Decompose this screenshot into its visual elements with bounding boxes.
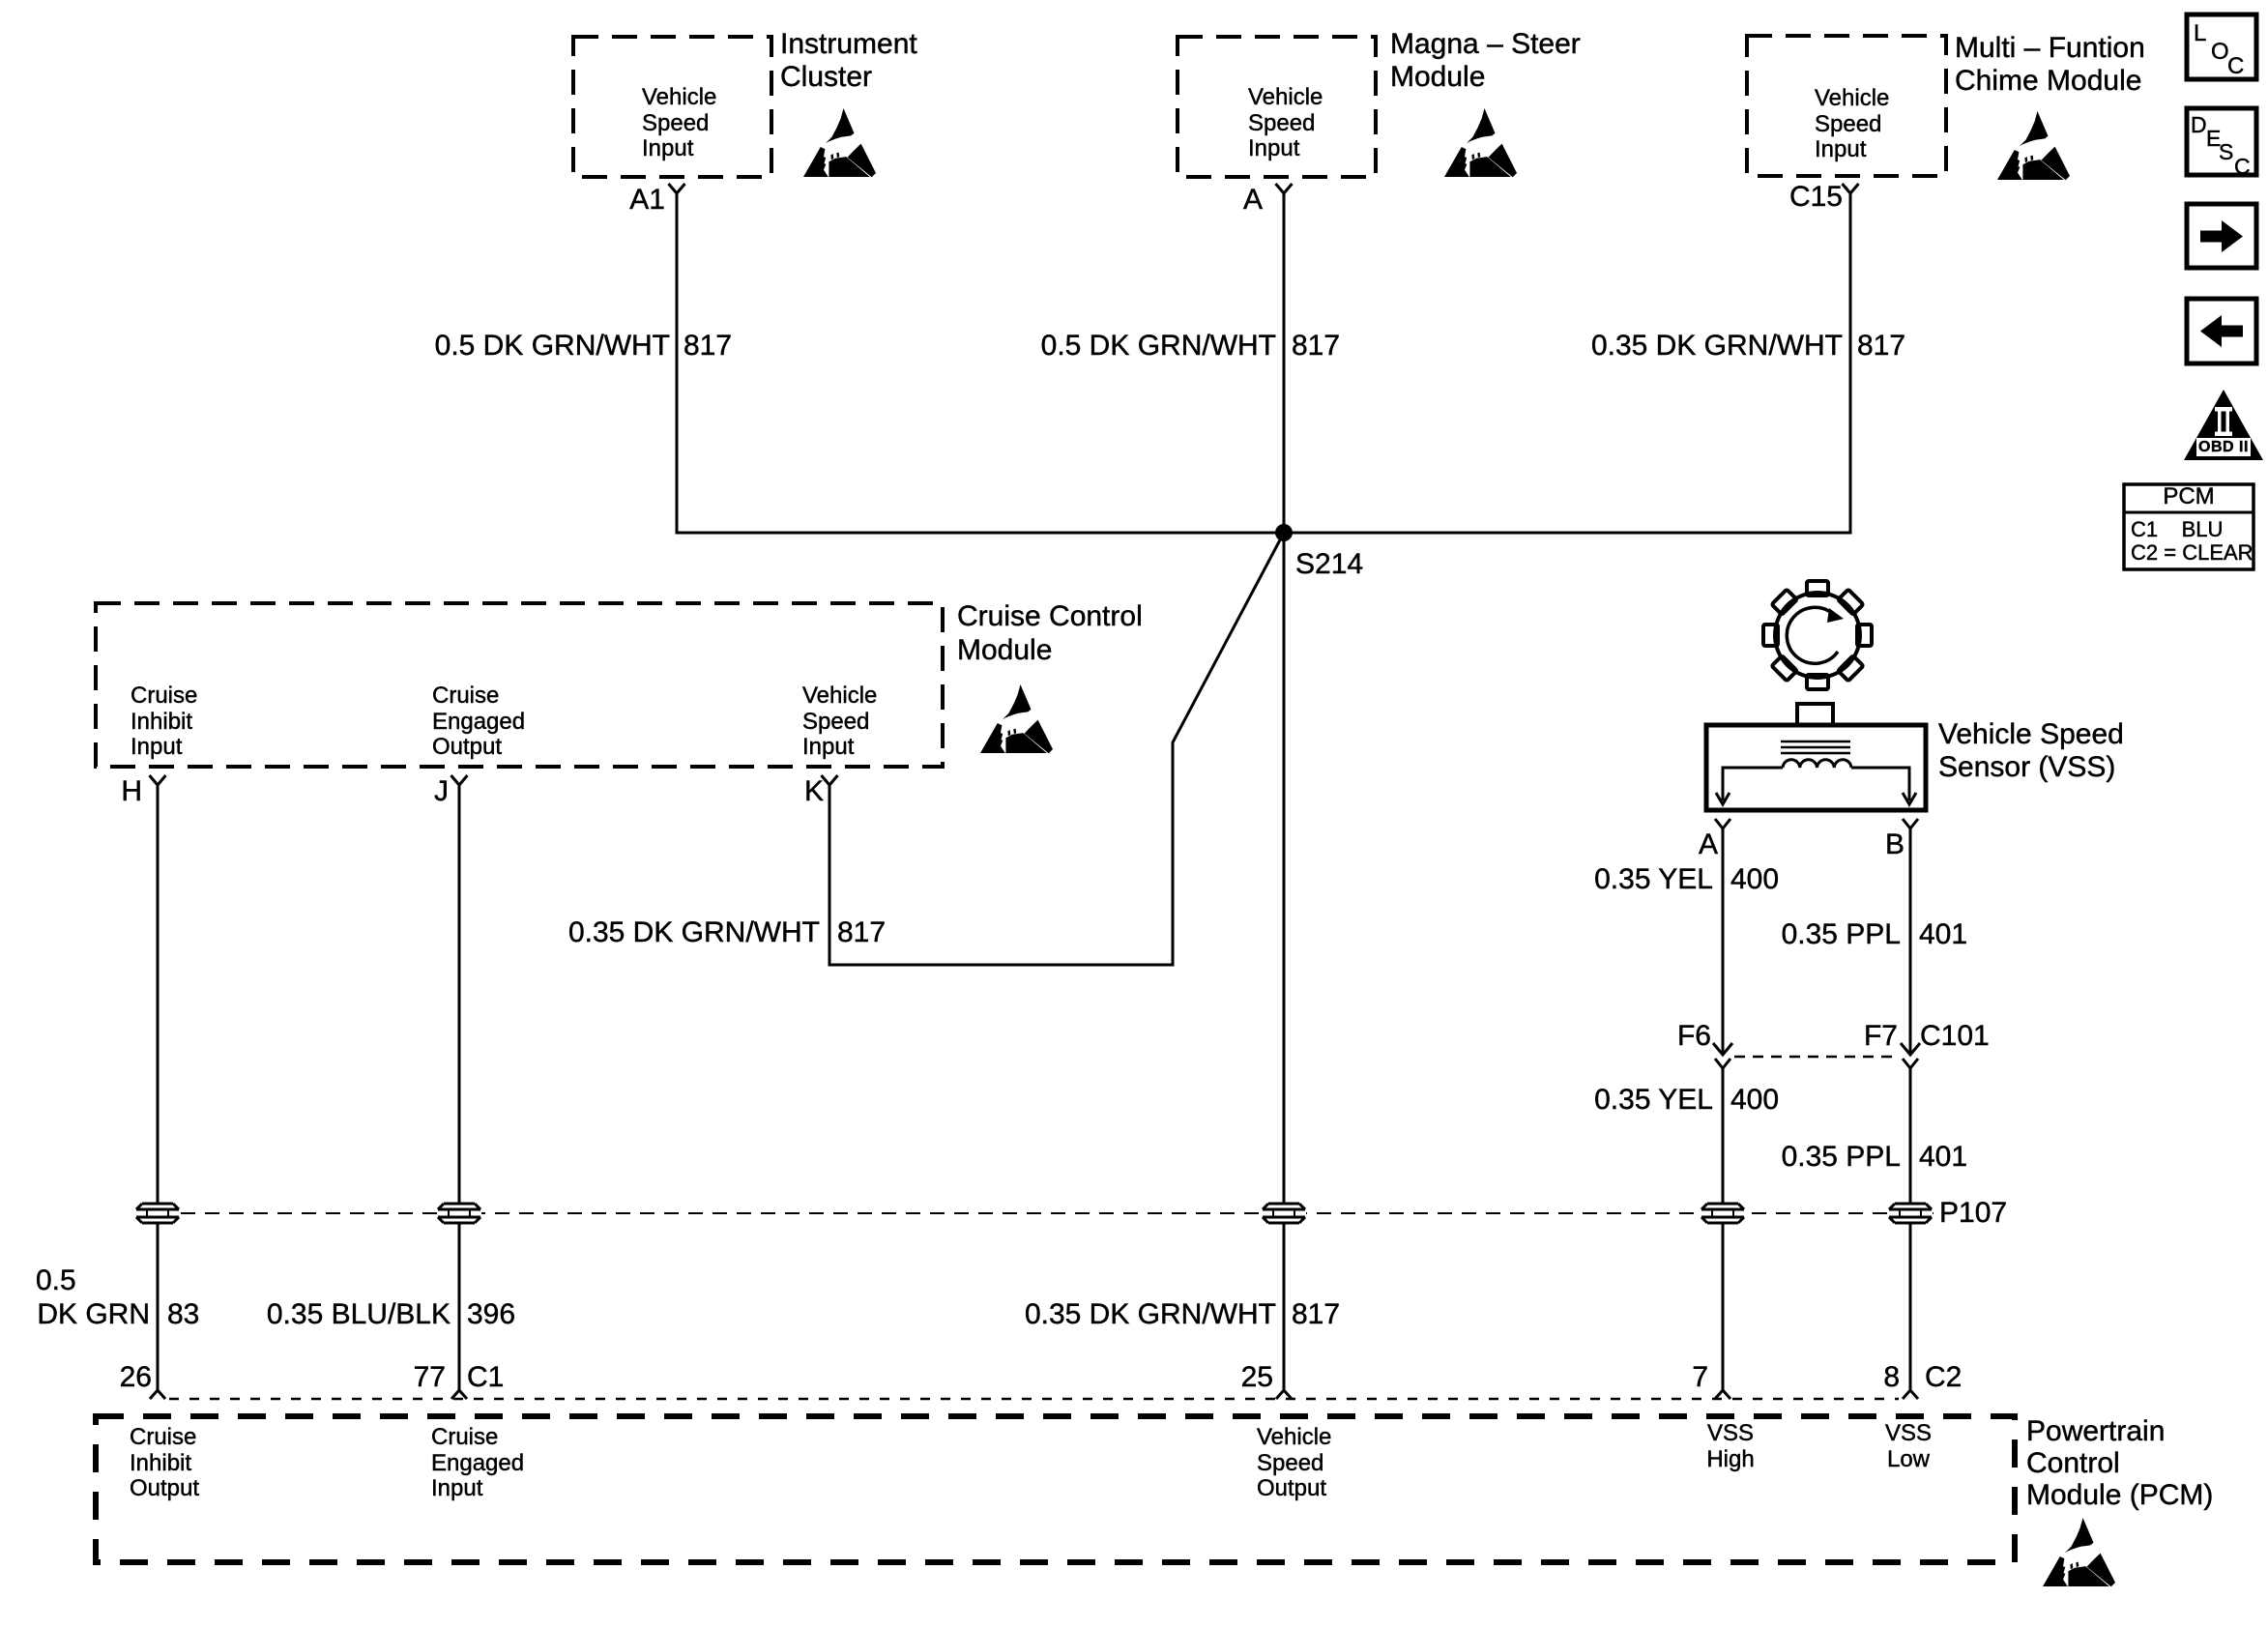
wire number 400 (1) (1730, 863, 1779, 896)
wire label 0.35 YEL (2) (1594, 1084, 1713, 1117)
text Vehicle Speed Input (cluster) (642, 85, 716, 162)
wire label 0.35 YEL (1) (1594, 863, 1713, 896)
wire number 817 (K) (837, 916, 886, 949)
connector label P107 (1939, 1197, 2007, 1230)
pin label 8 (1883, 1361, 1900, 1394)
wire 817 main vertical from pin A through S214 to pin 25 (1283, 193, 1286, 1390)
pin label B (VSS) (1885, 829, 1905, 861)
label Vehicle Speed Sensor (VSS) (1938, 718, 2124, 784)
label Magna-Steer Module (1390, 28, 1581, 94)
connector C101 dashed line (1734, 1056, 1897, 1059)
PCM legend C2 = CLEAR (2131, 541, 2253, 565)
connector label C1 (467, 1361, 504, 1394)
wire number 817 (25) (1292, 1298, 1340, 1331)
module Multi-Function Chime dashed box (1747, 36, 1946, 176)
icon DESC box (2187, 108, 2256, 175)
C101 F7 arrowhead (1901, 1043, 1920, 1055)
pin K connector fork (822, 775, 838, 785)
wire number 817 (A1) (683, 330, 732, 363)
ESD symbol Magna-Steer (1444, 108, 1517, 177)
label Cruise Control Module (957, 599, 1143, 667)
text Cruise Inhibit Output (130, 1425, 199, 1502)
ESD symbol Instrument Cluster (803, 108, 876, 177)
module Instrument Cluster dashed box (573, 37, 771, 177)
ESD symbol Cruise Control (980, 684, 1053, 753)
wire number 817 (C15) (1857, 330, 1905, 363)
wire 400 from C101 to pin 7 (1722, 1068, 1725, 1390)
PCM legend C1 BLU (2131, 518, 2223, 541)
pin label F6 (1677, 1020, 1711, 1053)
text Vehicle Speed Input (magna) (1248, 85, 1323, 162)
wire 817 branch from S214 to cruise pin K (829, 533, 1284, 965)
C101 F6 arrowhead (1713, 1043, 1732, 1055)
pin A connector fork (VSS) (1715, 819, 1730, 829)
connector label C101 (1920, 1020, 1990, 1053)
pin A connector fork (Magna-Steer) (1276, 184, 1293, 193)
wire number 396 (467, 1298, 515, 1331)
wire label 0.35 DK GRN/WHT (C15) (1591, 330, 1843, 363)
module Magna-Steer dashed box (1178, 37, 1376, 177)
wire 817 from pin A1 (676, 193, 679, 533)
pin J connector fork (451, 775, 468, 785)
wire 83 from pin H to pin 26 (157, 785, 160, 1390)
pin label A (1243, 184, 1263, 217)
text Cruise Inhibit Input (131, 683, 197, 761)
pin label A1 (629, 184, 665, 217)
wire 396 from pin J to pin 77 (458, 785, 461, 1390)
VSS coil and leads (1723, 768, 1909, 800)
pin label C15 (1789, 181, 1843, 214)
pin label 7 (1692, 1361, 1708, 1394)
wire label 0.5 DK GRN/WHT (A) (1041, 330, 1276, 363)
wire label 0.5 DK GRN/WHT (A1) (435, 330, 670, 363)
grommet at wire 817 (1262, 1204, 1306, 1223)
pin label 25 (1241, 1361, 1273, 1394)
pin label J (434, 775, 449, 808)
pin H connector fork (150, 775, 166, 785)
label Powertrain Control Module (PCM) (2026, 1415, 2213, 1511)
text Cruise Engaged Output (432, 683, 525, 761)
label Instrument Cluster (780, 28, 917, 94)
icon letters D E S C (2191, 108, 2207, 141)
module Cruise Control dashed box (96, 603, 943, 767)
pin label H (121, 775, 142, 808)
text Vehicle Speed Output (1257, 1425, 1331, 1502)
VSS connector tab (1797, 704, 1833, 725)
icon LOC box (2187, 15, 2256, 79)
icon OBD II triangle (2184, 390, 2263, 460)
connector label C2 (1925, 1361, 1962, 1394)
pin C15 connector fork (1843, 184, 1859, 193)
icon letters L O C (2194, 17, 2206, 50)
text Vehicle Speed Input (chime) (1815, 86, 1889, 163)
pin 77 fork (451, 1390, 467, 1399)
wire 401 from C101 to pin 8 (1909, 1068, 1912, 1390)
wire number 401 (2) (1919, 1141, 1967, 1174)
wire label 0.35 PPL (2) (1782, 1141, 1901, 1174)
pin label K (804, 775, 824, 808)
wire label 0.35 PPL (1) (1782, 918, 1901, 951)
wire number 817 (A) (1292, 330, 1340, 363)
PCM connector dashed line (169, 1398, 1899, 1401)
wire 400 from VSS pin A to C101 F6 (1722, 829, 1725, 1053)
pin A1 connector fork (669, 184, 685, 193)
pin 7 fork (1715, 1390, 1730, 1399)
icon left-arrow box (2187, 299, 2256, 363)
pin B connector fork (VSS) (1903, 819, 1918, 829)
wire label 0.35 DK GRN/WHT (K) (568, 916, 820, 949)
wire label 0.35 BLU/BLK (267, 1298, 451, 1331)
wire label DK GRN (H) (37, 1298, 150, 1331)
icon right-arrow box (2187, 204, 2256, 268)
text VSS High (1700, 1421, 1761, 1472)
pin label 26 (120, 1361, 152, 1394)
wire number 400 (2) (1730, 1084, 1779, 1117)
pin label 77 (414, 1361, 446, 1394)
wire 817 horizontal bus (676, 532, 1852, 535)
VSS gear icon (1763, 581, 1872, 689)
text VSS Low (1877, 1421, 1939, 1472)
wire 401 from VSS pin B to C101 F7 (1909, 829, 1912, 1053)
ESD symbol Chime Module (1997, 111, 2070, 180)
text Cruise Engaged Input (431, 1425, 524, 1502)
VSS internal arrowheads (1716, 793, 1730, 804)
pin label A (VSS) (1672, 829, 1718, 861)
pin label F7 (1864, 1020, 1898, 1053)
PCM legend box (2124, 484, 2253, 569)
C101 fork below F6 (1715, 1059, 1730, 1068)
ESD symbol PCM (2043, 1518, 2115, 1586)
grommet at wire 396 (437, 1204, 481, 1223)
grommet P107 at wire 400 (1701, 1204, 1745, 1223)
text Vehicle Speed Input (cruise) (802, 683, 877, 761)
wire label 0.5 (H) (36, 1265, 76, 1297)
wire number 83 (167, 1298, 199, 1331)
pin 26 fork (150, 1390, 165, 1399)
pin 25 fork (1276, 1390, 1292, 1399)
C101 fork below F7 (1903, 1059, 1918, 1068)
splice S214 junction dot (1275, 524, 1293, 541)
label S214 (1295, 548, 1363, 581)
wire number 401 (1) (1919, 918, 1967, 951)
wire 817 from pin C15 (1849, 193, 1852, 533)
grommet P107 at wire 401 (1888, 1204, 1933, 1223)
VSS sensor box (1706, 725, 1926, 810)
VSS core lines (1781, 741, 1850, 753)
pin 8 fork (1903, 1390, 1918, 1399)
icon OBD II text (2196, 438, 2251, 456)
label Multi-Funtion Chime Module (1955, 32, 2145, 98)
grommet at wire 83 (135, 1204, 180, 1223)
module PCM dashed box (96, 1416, 2015, 1562)
wire label 0.35 DK GRN/WHT (25) (1025, 1298, 1276, 1331)
P107 pass-through dashed line (181, 1212, 1934, 1214)
PCM legend title (2124, 484, 2253, 509)
